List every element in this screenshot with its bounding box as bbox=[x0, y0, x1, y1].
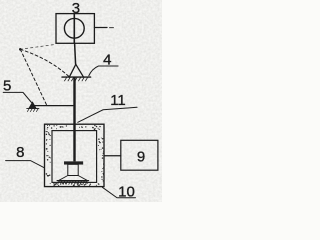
svg-text:10: 10 bbox=[118, 184, 135, 201]
svg-text:9: 9 bbox=[137, 149, 145, 166]
svg-text:5: 5 bbox=[3, 77, 11, 94]
svg-text:11: 11 bbox=[110, 92, 126, 109]
svg-text:8: 8 bbox=[16, 144, 24, 161]
svg-text:3: 3 bbox=[72, 0, 80, 17]
